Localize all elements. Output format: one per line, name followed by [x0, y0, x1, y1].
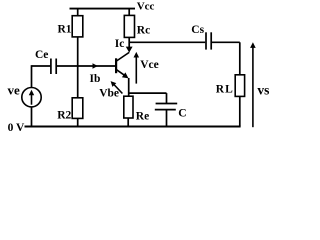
svg-text:Rc: Rc [137, 25, 150, 37]
svg-text:0 V: 0 V [8, 122, 25, 132]
svg-text:Cs: Cs [191, 24, 204, 36]
svg-text:vs: vs [257, 83, 269, 98]
svg-text:Ib: Ib [90, 73, 101, 85]
svg-text:Vbe: Vbe [99, 87, 119, 99]
svg-text:R2: R2 [57, 109, 71, 121]
svg-text:Vcc: Vcc [137, 1, 155, 13]
svg-text:Vce: Vce [140, 59, 159, 71]
svg-text:RL: RL [216, 84, 234, 96]
svg-text:Ic: Ic [115, 38, 125, 50]
svg-text:ve: ve [8, 83, 21, 98]
svg-text:Re: Re [136, 111, 149, 123]
svg-text:Ce: Ce [35, 49, 48, 61]
svg-text:R1: R1 [58, 24, 72, 36]
svg-text:C: C [178, 107, 186, 119]
